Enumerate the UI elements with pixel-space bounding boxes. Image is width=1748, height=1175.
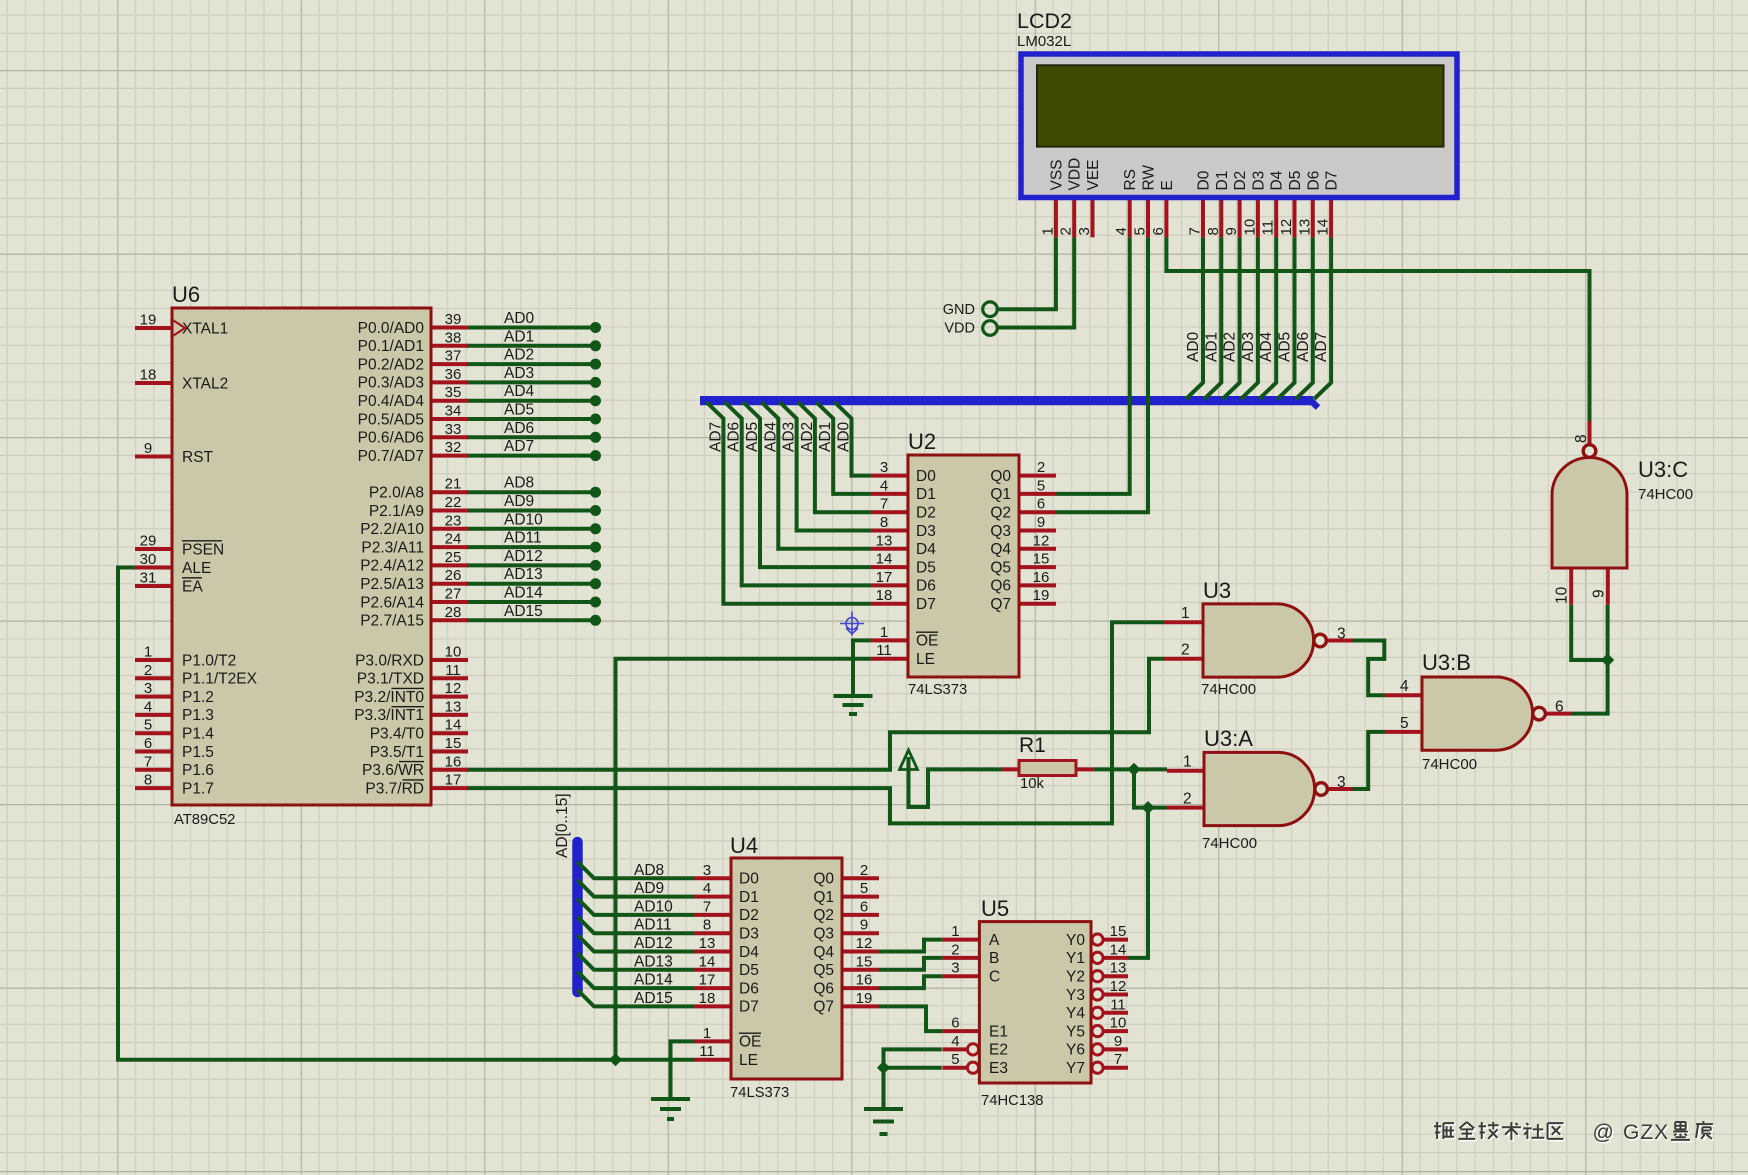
svg-text:Y7: Y7 <box>1066 1060 1085 1077</box>
svg-text:Y4: Y4 <box>1066 1005 1085 1022</box>
svg-text:AD4: AD4 <box>762 421 779 452</box>
svg-text:P0.5/AD5: P0.5/AD5 <box>358 411 424 428</box>
svg-text:39: 39 <box>445 311 462 328</box>
svg-text:5: 5 <box>860 880 868 897</box>
svg-text:D1: D1 <box>916 486 936 503</box>
svg-text:2: 2 <box>1181 642 1190 659</box>
svg-text:17: 17 <box>876 569 893 586</box>
svg-text:D6: D6 <box>916 578 936 595</box>
svg-text:12: 12 <box>856 935 873 952</box>
svg-text:12: 12 <box>445 680 462 697</box>
svg-text:15: 15 <box>1033 551 1050 568</box>
svg-text:2: 2 <box>1037 459 1045 476</box>
svg-text:P0.0/AD0: P0.0/AD0 <box>358 320 425 337</box>
svg-text:9: 9 <box>1223 227 1240 235</box>
svg-text:74HC00: 74HC00 <box>1201 681 1256 698</box>
svg-text:Q5: Q5 <box>813 962 834 979</box>
svg-text:AD7: AD7 <box>1313 332 1330 362</box>
svg-text:19: 19 <box>856 990 873 1007</box>
svg-text:Q0: Q0 <box>990 468 1011 485</box>
svg-text:D0: D0 <box>916 468 936 485</box>
svg-text:AD2: AD2 <box>799 422 816 452</box>
svg-text:LCD2: LCD2 <box>1017 9 1072 33</box>
svg-text:12: 12 <box>1110 978 1127 995</box>
svg-text:AD8: AD8 <box>504 475 534 492</box>
svg-text:Q4: Q4 <box>990 541 1011 558</box>
svg-text:D0: D0 <box>1196 170 1213 190</box>
svg-text:5: 5 <box>144 717 152 734</box>
svg-text:8: 8 <box>144 772 152 789</box>
svg-text:E1: E1 <box>989 1023 1008 1040</box>
svg-text:AD12: AD12 <box>634 935 673 952</box>
svg-text:Y2: Y2 <box>1066 969 1085 986</box>
svg-text:XTAL2: XTAL2 <box>182 375 228 392</box>
svg-text:4: 4 <box>144 698 152 715</box>
svg-text:P3.1/TXD: P3.1/TXD <box>357 671 424 688</box>
svg-text:E2: E2 <box>989 1042 1008 1059</box>
svg-text:22: 22 <box>445 494 462 511</box>
svg-text:P1.6: P1.6 <box>182 762 214 779</box>
svg-text:1: 1 <box>703 1025 711 1042</box>
svg-text:P2.5/A13: P2.5/A13 <box>360 576 424 593</box>
svg-text:B: B <box>989 950 999 967</box>
svg-text:10k: 10k <box>1020 776 1044 792</box>
svg-text:AD3: AD3 <box>1240 332 1257 362</box>
svg-text:8: 8 <box>880 514 888 531</box>
svg-text:AD3: AD3 <box>504 365 534 382</box>
svg-text:AD9: AD9 <box>634 880 664 897</box>
svg-text:10: 10 <box>1554 586 1571 604</box>
svg-text:P3.4/T0: P3.4/T0 <box>370 726 425 743</box>
svg-text:Q7: Q7 <box>813 999 834 1016</box>
svg-text:4: 4 <box>880 477 888 494</box>
svg-text:27: 27 <box>445 586 462 603</box>
svg-text:D7: D7 <box>1324 171 1341 191</box>
svg-text:D4: D4 <box>1269 170 1286 190</box>
svg-text:6: 6 <box>1555 699 1564 716</box>
svg-text:U3:A: U3:A <box>1204 726 1253 751</box>
svg-text:1: 1 <box>144 644 152 661</box>
svg-text:P0.2/AD2: P0.2/AD2 <box>358 356 424 373</box>
svg-text:7: 7 <box>1187 227 1204 235</box>
svg-text:2: 2 <box>860 862 868 879</box>
svg-text:5: 5 <box>1037 477 1045 494</box>
svg-text:AD1: AD1 <box>1203 332 1220 362</box>
svg-text:10: 10 <box>1241 219 1258 236</box>
svg-text:P0.6/AD6: P0.6/AD6 <box>358 430 424 447</box>
svg-text:P1.0/T2: P1.0/T2 <box>182 652 236 669</box>
svg-text:Y5: Y5 <box>1066 1023 1085 1040</box>
svg-text:3: 3 <box>703 862 711 879</box>
svg-text:D7: D7 <box>739 999 759 1016</box>
svg-text:OE: OE <box>739 1034 761 1051</box>
svg-text:3: 3 <box>1337 626 1346 643</box>
svg-text:Q2: Q2 <box>990 505 1011 522</box>
svg-text:7: 7 <box>880 496 888 513</box>
svg-text:D4: D4 <box>916 541 936 558</box>
svg-text:P1.1/T2EX: P1.1/T2EX <box>182 671 258 688</box>
svg-text:4: 4 <box>951 1033 959 1050</box>
svg-text:D3: D3 <box>1250 171 1267 191</box>
svg-text:U2: U2 <box>908 429 936 454</box>
svg-text:Q1: Q1 <box>990 486 1011 503</box>
svg-text:Y6: Y6 <box>1066 1042 1085 1059</box>
svg-text:5: 5 <box>1400 715 1409 732</box>
svg-text:P2.4/A12: P2.4/A12 <box>360 558 424 575</box>
svg-text:AD6: AD6 <box>726 422 743 452</box>
svg-text:6: 6 <box>951 1015 959 1032</box>
svg-text:U6: U6 <box>172 282 200 307</box>
svg-text:OE: OE <box>916 633 938 650</box>
svg-text:AD4: AD4 <box>504 383 535 400</box>
svg-text:E3: E3 <box>989 1060 1008 1077</box>
svg-text:P2.6/A14: P2.6/A14 <box>360 594 424 611</box>
svg-text:12: 12 <box>1033 532 1050 549</box>
svg-text:P2.1/A9: P2.1/A9 <box>369 503 424 520</box>
svg-text:D5: D5 <box>1287 171 1304 191</box>
svg-text:AD10: AD10 <box>634 898 673 915</box>
svg-text:AD[0..15]: AD[0..15] <box>554 793 571 858</box>
svg-text:34: 34 <box>445 403 462 420</box>
svg-text:3: 3 <box>951 960 959 977</box>
svg-text:AD12: AD12 <box>504 548 543 565</box>
svg-text:D2: D2 <box>739 907 759 924</box>
svg-text:VDD: VDD <box>944 320 975 336</box>
svg-text:P2.3/A11: P2.3/A11 <box>361 539 424 556</box>
svg-text:14: 14 <box>699 953 716 970</box>
svg-text:AD15: AD15 <box>634 990 673 1007</box>
svg-text:9: 9 <box>1114 1033 1122 1050</box>
svg-text:25: 25 <box>445 549 462 566</box>
svg-text:XTAL1: XTAL1 <box>182 320 228 337</box>
svg-text:VDD: VDD <box>1067 158 1084 191</box>
svg-text:9: 9 <box>860 917 868 934</box>
svg-text:11: 11 <box>699 1043 715 1060</box>
svg-text:LE: LE <box>739 1052 758 1069</box>
svg-text:Q5: Q5 <box>990 559 1011 576</box>
svg-text:32: 32 <box>445 439 462 456</box>
svg-text:21: 21 <box>445 476 462 493</box>
svg-text:D1: D1 <box>739 889 759 906</box>
svg-text:D1: D1 <box>1214 171 1231 191</box>
svg-text:5: 5 <box>1132 227 1149 235</box>
svg-text:38: 38 <box>445 329 462 346</box>
svg-text:P2.2/A10: P2.2/A10 <box>360 521 424 538</box>
svg-text:P0.3/AD3: P0.3/AD3 <box>358 375 424 392</box>
svg-text:D0: D0 <box>739 871 759 888</box>
svg-text:Q7: Q7 <box>990 596 1011 613</box>
svg-text:8: 8 <box>1205 227 1222 235</box>
svg-text:P3.7/RD: P3.7/RD <box>365 780 424 797</box>
svg-text:2: 2 <box>951 941 959 958</box>
svg-text:GND: GND <box>943 302 975 318</box>
svg-text:6: 6 <box>144 735 152 752</box>
svg-text:7: 7 <box>144 753 152 770</box>
svg-text:12: 12 <box>1278 219 1295 236</box>
svg-text:10: 10 <box>445 644 462 661</box>
svg-text:16: 16 <box>445 753 462 770</box>
svg-text:AD9: AD9 <box>504 493 534 510</box>
svg-text:GZX: GZX <box>1623 1121 1669 1144</box>
svg-text:26: 26 <box>445 567 462 584</box>
svg-text:D4: D4 <box>739 944 759 961</box>
svg-text:10: 10 <box>1110 1015 1127 1032</box>
svg-text:1: 1 <box>880 624 888 641</box>
svg-text:3: 3 <box>1076 227 1093 235</box>
svg-text:AD8: AD8 <box>634 862 664 879</box>
svg-text:15: 15 <box>1110 923 1127 940</box>
svg-text:Q2: Q2 <box>813 907 834 924</box>
svg-text:15: 15 <box>856 953 873 970</box>
svg-text:1: 1 <box>1039 227 1056 235</box>
svg-text:VSS: VSS <box>1048 159 1065 190</box>
svg-text:AD15: AD15 <box>504 603 543 620</box>
svg-text:AD6: AD6 <box>1295 332 1312 362</box>
svg-text:13: 13 <box>445 698 462 715</box>
svg-text:Q4: Q4 <box>813 944 834 961</box>
svg-text:EA: EA <box>182 578 203 595</box>
svg-text:18: 18 <box>140 367 157 384</box>
svg-text:2: 2 <box>1183 791 1192 808</box>
svg-text:24: 24 <box>445 531 462 548</box>
svg-text:AD5: AD5 <box>1277 332 1294 362</box>
svg-text:8: 8 <box>703 917 711 934</box>
svg-text:16: 16 <box>856 972 873 989</box>
svg-text:9: 9 <box>1037 514 1045 531</box>
svg-text:13: 13 <box>876 532 893 549</box>
svg-text:LE: LE <box>916 651 935 668</box>
svg-text:14: 14 <box>1110 941 1127 958</box>
svg-text:U5: U5 <box>981 896 1009 921</box>
svg-text:74HC138: 74HC138 <box>981 1093 1044 1109</box>
svg-text:7: 7 <box>703 898 711 915</box>
svg-text:RS: RS <box>1122 169 1139 191</box>
svg-text:D6: D6 <box>1305 171 1322 191</box>
svg-text:P1.5: P1.5 <box>182 744 214 761</box>
svg-text:P0.4/AD4: P0.4/AD4 <box>358 393 425 410</box>
svg-text:6: 6 <box>1037 496 1045 513</box>
svg-text:AD1: AD1 <box>817 422 834 452</box>
svg-text:RW: RW <box>1141 165 1158 191</box>
svg-text:3: 3 <box>880 459 888 476</box>
svg-text:AD11: AD11 <box>634 917 672 934</box>
svg-text:18: 18 <box>699 990 716 1007</box>
svg-text:23: 23 <box>445 512 462 529</box>
svg-text:P0.1/AD1: P0.1/AD1 <box>358 338 424 355</box>
svg-text:4: 4 <box>1400 678 1409 695</box>
svg-text:11: 11 <box>1260 220 1277 236</box>
svg-text:2: 2 <box>144 662 152 679</box>
svg-text:18: 18 <box>876 587 893 604</box>
svg-text:U3:C: U3:C <box>1638 457 1688 482</box>
svg-text:11: 11 <box>445 662 461 679</box>
svg-text:P3.3/INT1: P3.3/INT1 <box>354 707 424 724</box>
svg-text:4: 4 <box>1113 227 1130 235</box>
svg-text:7: 7 <box>1114 1051 1122 1068</box>
svg-text:13: 13 <box>1296 219 1313 236</box>
svg-text:AD13: AD13 <box>504 566 543 583</box>
svg-text:D5: D5 <box>739 962 759 979</box>
svg-text:@: @ <box>1593 1121 1614 1144</box>
svg-text:AD0: AD0 <box>1185 331 1202 362</box>
svg-text:AD14: AD14 <box>504 585 543 602</box>
svg-text:74HC00: 74HC00 <box>1202 835 1257 852</box>
svg-text:14: 14 <box>1315 219 1332 236</box>
svg-text:19: 19 <box>1033 587 1050 604</box>
svg-text:P3.0/RXD: P3.0/RXD <box>355 652 424 669</box>
svg-text:AD4: AD4 <box>1258 331 1275 362</box>
svg-text:U4: U4 <box>730 833 758 858</box>
svg-text:P0.7/AD7: P0.7/AD7 <box>358 448 424 465</box>
svg-text:Q0: Q0 <box>813 871 834 888</box>
svg-text:E: E <box>1159 180 1176 190</box>
svg-text:15: 15 <box>445 735 462 752</box>
svg-text:35: 35 <box>445 384 462 401</box>
svg-text:3: 3 <box>1337 774 1346 791</box>
svg-text:6: 6 <box>1150 227 1167 235</box>
svg-text:74HC00: 74HC00 <box>1422 756 1477 773</box>
svg-text:AD11: AD11 <box>504 530 542 547</box>
svg-text:Q1: Q1 <box>813 889 834 906</box>
svg-text:ALE: ALE <box>182 560 211 577</box>
svg-text:Q3: Q3 <box>813 926 834 943</box>
svg-text:U3: U3 <box>1203 578 1231 603</box>
svg-text:P3.6/WR: P3.6/WR <box>362 762 424 779</box>
svg-text:2: 2 <box>1058 227 1075 235</box>
svg-text:Q3: Q3 <box>990 523 1011 540</box>
svg-text:31: 31 <box>140 570 157 587</box>
svg-text:P1.4: P1.4 <box>182 726 214 743</box>
svg-text:AD10: AD10 <box>504 511 543 528</box>
svg-text:AD7: AD7 <box>504 438 534 455</box>
svg-text:33: 33 <box>445 421 462 438</box>
svg-text:AD5: AD5 <box>744 422 761 452</box>
svg-text:Y0: Y0 <box>1066 932 1085 949</box>
svg-text:D6: D6 <box>739 980 759 997</box>
svg-text:AD0: AD0 <box>504 310 535 327</box>
svg-text:D3: D3 <box>739 926 759 943</box>
svg-text:PSEN: PSEN <box>182 541 224 558</box>
svg-text:D7: D7 <box>916 596 936 613</box>
svg-text:6: 6 <box>860 898 868 915</box>
svg-text:11: 11 <box>1110 996 1126 1013</box>
svg-text:Y3: Y3 <box>1066 987 1085 1004</box>
svg-text:1: 1 <box>1183 754 1192 771</box>
svg-text:29: 29 <box>140 533 157 550</box>
svg-text:R1: R1 <box>1019 734 1046 757</box>
svg-text:AD1: AD1 <box>504 328 534 345</box>
svg-text:17: 17 <box>699 972 716 989</box>
svg-text:LM032L: LM032L <box>1017 33 1071 50</box>
svg-text:37: 37 <box>445 348 462 365</box>
svg-text:P3.5/T1: P3.5/T1 <box>370 744 424 761</box>
svg-text:P2.0/A8: P2.0/A8 <box>369 485 424 502</box>
svg-text:4: 4 <box>703 880 711 897</box>
svg-text:Q6: Q6 <box>990 578 1011 595</box>
svg-text:9: 9 <box>1591 589 1608 598</box>
svg-text:AD2: AD2 <box>504 347 534 364</box>
svg-text:74LS373: 74LS373 <box>730 1085 789 1101</box>
svg-text:D3: D3 <box>916 523 936 540</box>
svg-text:AD3: AD3 <box>781 422 798 452</box>
svg-text:17: 17 <box>445 772 462 789</box>
svg-text:AT89C52: AT89C52 <box>174 812 235 828</box>
svg-text:U3:B: U3:B <box>1422 650 1471 675</box>
svg-text:14: 14 <box>445 717 462 734</box>
svg-text:11: 11 <box>876 642 892 659</box>
svg-text:3: 3 <box>144 680 152 697</box>
svg-text:P2.7/A15: P2.7/A15 <box>360 613 424 630</box>
svg-text:16: 16 <box>1033 569 1050 586</box>
svg-text:A: A <box>989 932 1000 949</box>
svg-text:74HC00: 74HC00 <box>1638 486 1693 503</box>
svg-text:36: 36 <box>445 366 462 383</box>
svg-text:D5: D5 <box>916 559 936 576</box>
svg-text:8: 8 <box>1573 434 1590 443</box>
svg-text:13: 13 <box>699 935 716 952</box>
svg-text:14: 14 <box>876 551 893 568</box>
svg-text:AD2: AD2 <box>1222 332 1239 362</box>
svg-text:AD5: AD5 <box>504 402 534 419</box>
svg-text:P1.7: P1.7 <box>182 780 214 797</box>
svg-text:AD0: AD0 <box>836 421 853 452</box>
svg-text:Q6: Q6 <box>813 980 834 997</box>
svg-text:P1.3: P1.3 <box>182 707 214 724</box>
svg-text:9: 9 <box>144 440 152 457</box>
svg-text:C: C <box>989 969 1000 986</box>
svg-text:AD13: AD13 <box>634 953 673 970</box>
svg-text:28: 28 <box>445 604 462 621</box>
svg-text:RST: RST <box>182 449 214 466</box>
svg-text:D2: D2 <box>916 505 936 522</box>
svg-text:74LS373: 74LS373 <box>908 682 967 698</box>
svg-text:VEE: VEE <box>1085 159 1102 190</box>
svg-text:AD14: AD14 <box>634 972 673 989</box>
svg-text:5: 5 <box>951 1051 959 1068</box>
svg-text:13: 13 <box>1110 960 1127 977</box>
svg-text:P1.2: P1.2 <box>182 689 214 706</box>
svg-text:19: 19 <box>140 312 157 329</box>
svg-text:Y1: Y1 <box>1066 950 1085 967</box>
svg-text:1: 1 <box>1181 605 1190 622</box>
svg-text:AD7: AD7 <box>707 422 724 452</box>
svg-text:D2: D2 <box>1232 171 1249 191</box>
svg-text:AD6: AD6 <box>504 420 534 437</box>
svg-text:1: 1 <box>951 923 959 940</box>
svg-text:30: 30 <box>140 551 157 568</box>
svg-text:P3.2/INT0: P3.2/INT0 <box>354 689 424 706</box>
